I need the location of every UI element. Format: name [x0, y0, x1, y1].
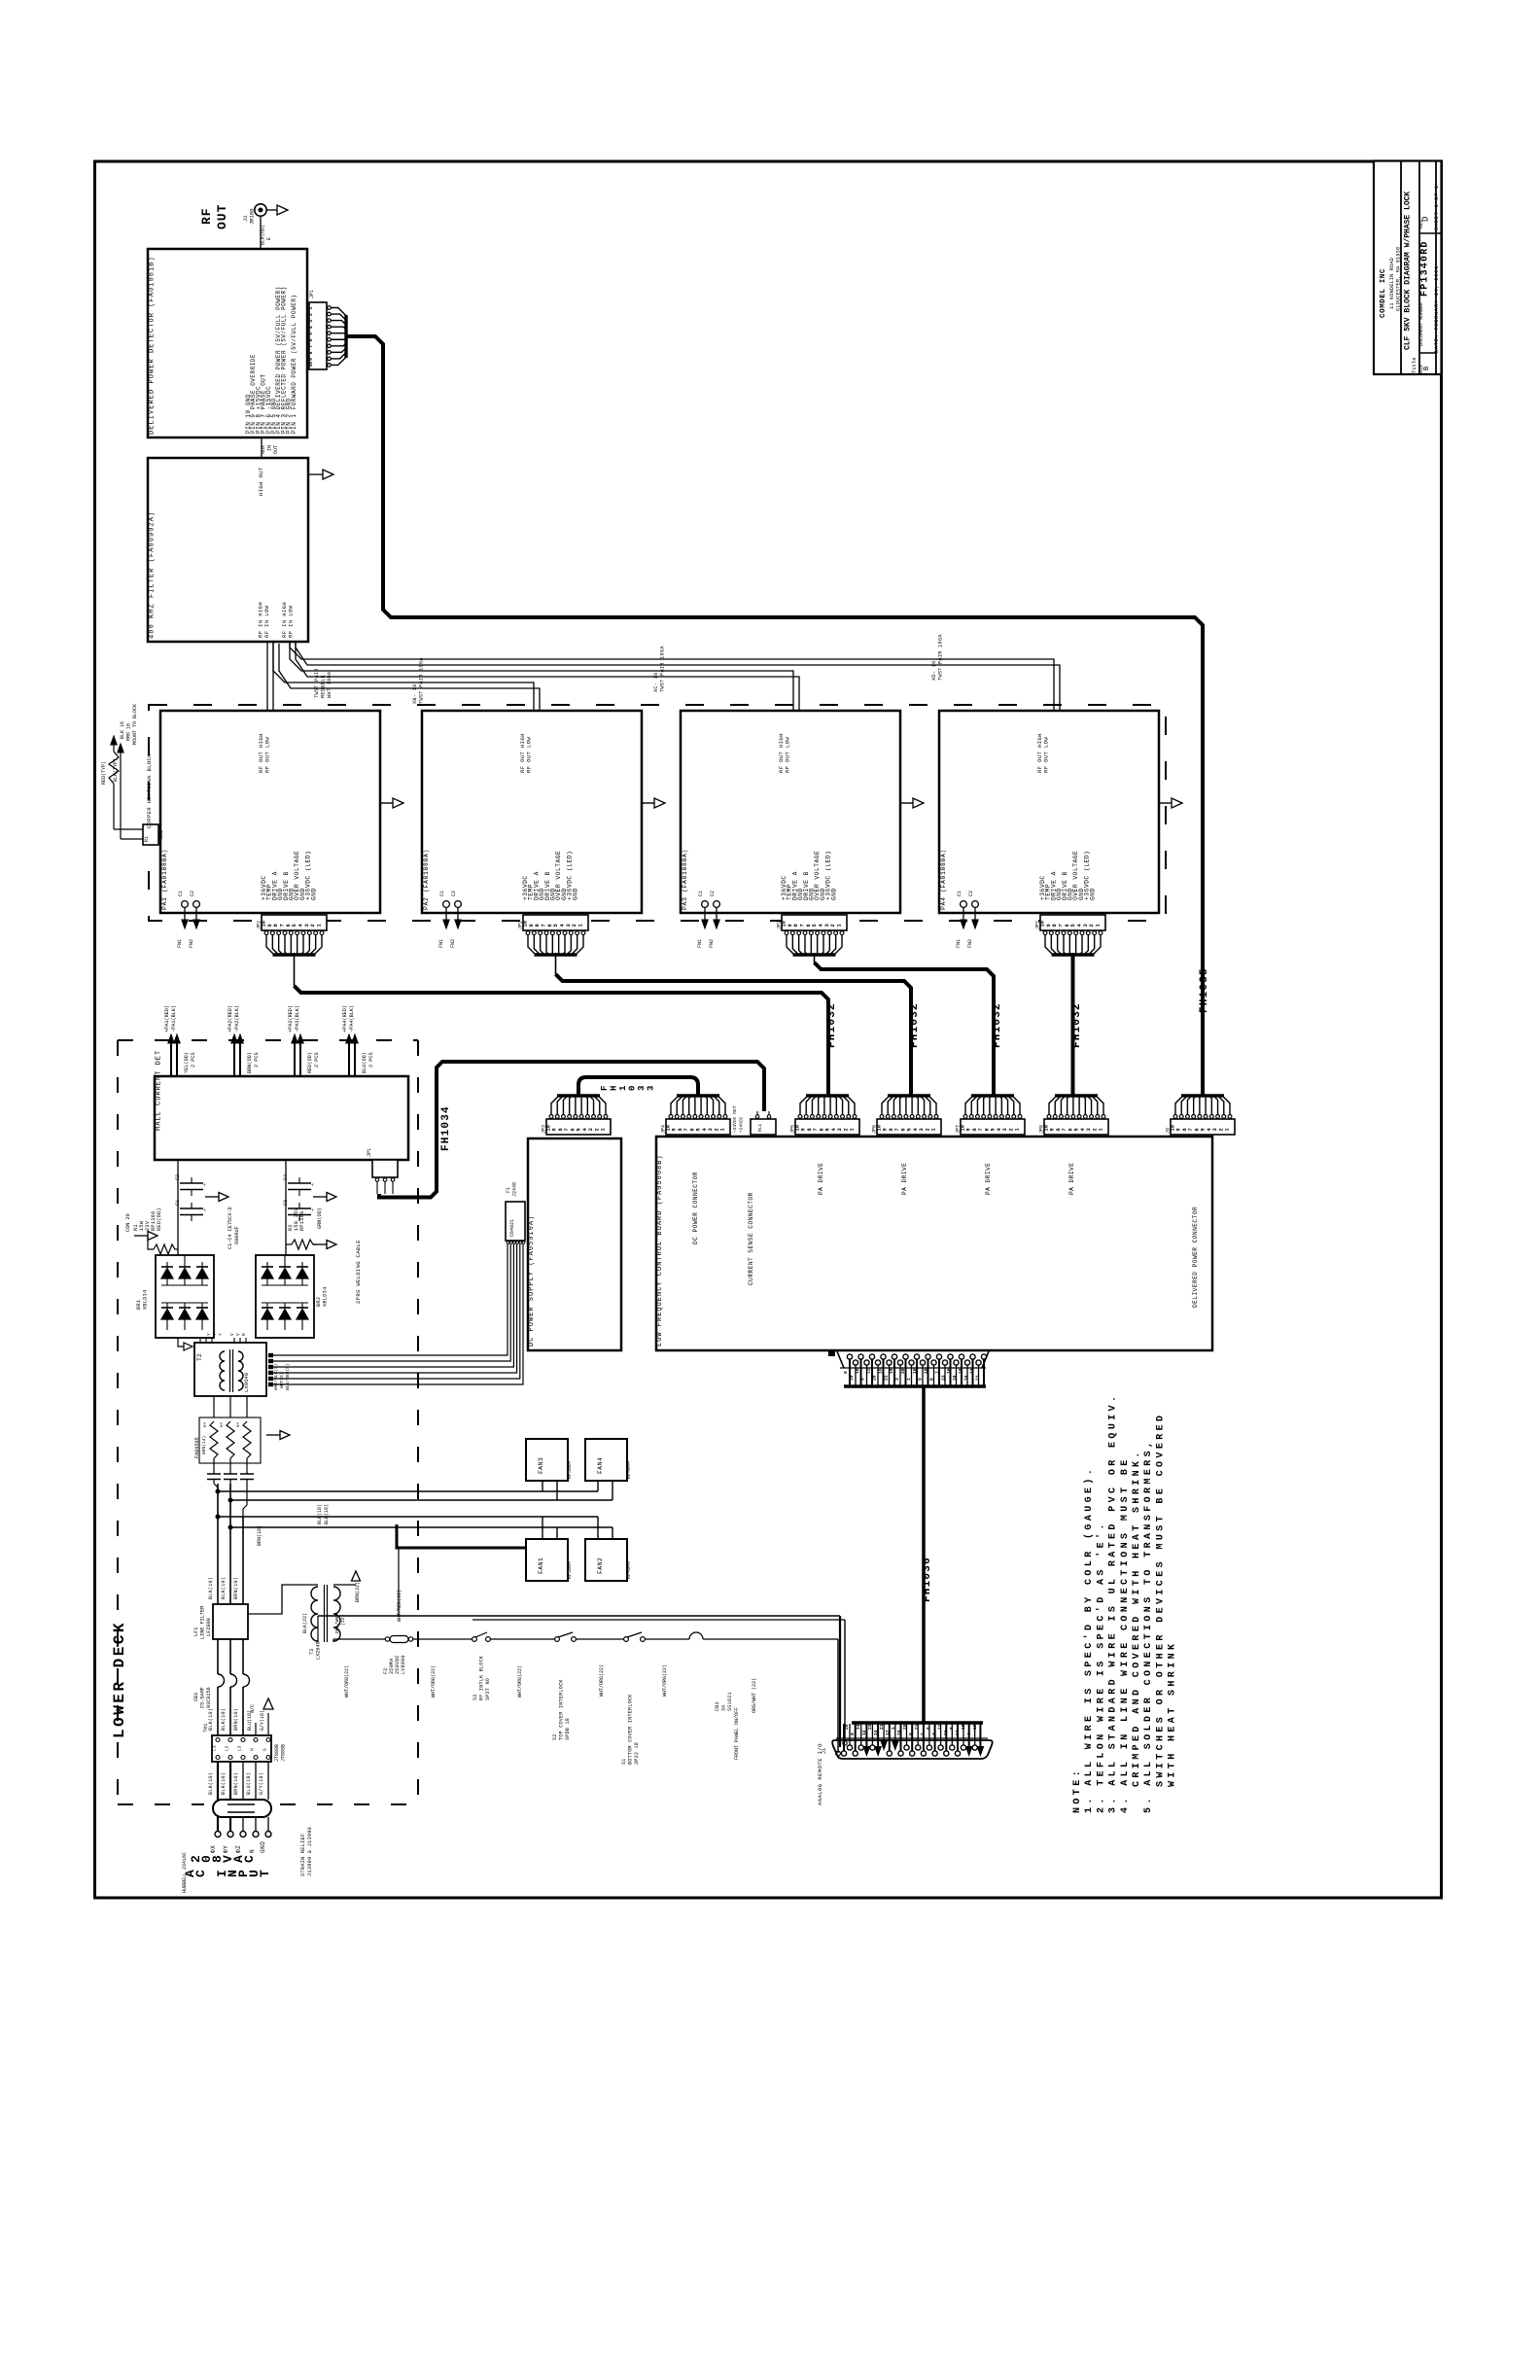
- svg-text:16: 16: [946, 1368, 952, 1374]
- svg-text:F: F: [600, 1086, 610, 1091]
- svg-text:8: 8: [972, 1128, 978, 1131]
- svg-text:1: 1: [578, 924, 584, 927]
- svg-text:5: 5: [553, 924, 559, 927]
- svg-text:G/Y(18): G/Y(18): [260, 1710, 265, 1731]
- svg-text:FH1036: FH1036: [922, 1557, 933, 1602]
- svg-text:WHT/ORG(22): WHT/ORG(22): [431, 1665, 437, 1697]
- svg-text:C: C: [242, 1855, 257, 1863]
- svg-text:2: 2: [1092, 1128, 1098, 1131]
- svg-text:6: 6: [819, 1128, 824, 1131]
- svg-text:9: 9: [918, 1378, 924, 1381]
- svg-text:1: 1: [906, 1378, 912, 1381]
- svg-text:3: 3: [1083, 924, 1089, 927]
- svg-text:JP2: JP2: [1035, 921, 1041, 929]
- svg-text:6: 6: [1065, 924, 1070, 927]
- svg-text:IN: IN: [267, 445, 273, 451]
- svg-text:Title: Title: [1411, 357, 1417, 373]
- svg-text:DATE: FEBRUARY 14, 2001: DATE: FEBRUARY 14, 2001: [1434, 265, 1440, 353]
- svg-text:24: 24: [856, 1724, 861, 1730]
- svg-text:5: 5: [812, 924, 818, 927]
- svg-text:BR2: BR2: [316, 1297, 322, 1307]
- svg-text:PA3 (FA01080A): PA3 (FA01080A): [682, 849, 688, 910]
- svg-text:RF: RF: [199, 207, 214, 225]
- svg-text:8: 8: [908, 1732, 914, 1735]
- svg-text:WHT/ORG(22): WHT/ORG(22): [599, 1664, 605, 1697]
- svg-text:+24VDC RET: +24VDC RET: [732, 1105, 738, 1133]
- svg-text:8: 8: [1182, 1128, 1188, 1131]
- svg-text:TWST PAIR 18GA: TWST PAIR 18GA: [419, 657, 425, 704]
- svg-text:FRONT PANEL ON/OFF: FRONT PANEL ON/OFF: [734, 1707, 740, 1760]
- svg-text:PA4 (FA01080A): PA4 (FA01080A): [940, 849, 947, 910]
- svg-text:1: 1: [837, 924, 843, 927]
- svg-text:LOWER DECK: LOWER DECK: [111, 1621, 128, 1738]
- svg-text:JP1: JP1: [367, 1148, 372, 1157]
- svg-text:NOTE:: NOTE:: [1072, 1767, 1083, 1813]
- svg-text:e+: e+: [220, 1421, 225, 1427]
- svg-text:LOW FREQUENCY CONTROL BOARD (F: LOW FREQUENCY CONTROL BOARD (FA05008B): [656, 1154, 664, 1347]
- svg-text:3: 3: [647, 1086, 656, 1091]
- svg-text:RMG 16: RMG 16: [126, 723, 132, 741]
- svg-text:9: 9: [883, 1128, 889, 1131]
- svg-text:BLU(18): BLU(18): [246, 1772, 252, 1795]
- svg-text:RF IN LOW: RF IN LOW: [288, 605, 295, 638]
- svg-text:WHT/ORG(22): WHT/ORG(22): [517, 1665, 523, 1697]
- svg-text:2 PCS: 2 PCS: [191, 1052, 196, 1067]
- svg-text:FAN2: FAN2: [597, 1557, 604, 1574]
- svg-text:3: 3: [304, 924, 310, 927]
- svg-text:FAN4: FAN4: [597, 1457, 604, 1474]
- svg-text:4. ALL IN LINE WIRE CONNECTION: 4. ALL IN LINE WIRE CONNECTIONS MUST BE: [1120, 1456, 1131, 1813]
- svg-text:6: 6: [900, 1128, 906, 1131]
- svg-text:-PA2(BLK): -PA2(BLK): [234, 1005, 240, 1032]
- svg-text:SPST NO: SPST NO: [485, 1678, 491, 1700]
- svg-text:SWITCHES OR OTHER DEVICES MUST: SWITCHES OR OTHER DEVICES MUST BE COVERE…: [1155, 1413, 1166, 1787]
- svg-text:COMDEL INC: COMDEL INC: [1380, 268, 1387, 318]
- svg-text:8: 8: [949, 1727, 955, 1730]
- svg-text:4: 4: [966, 1732, 972, 1735]
- svg-text:MOUNT TO BLOCK: MOUNT TO BLOCK: [132, 704, 138, 745]
- svg-text:7: 7: [308, 345, 314, 348]
- svg-text:9: 9: [1050, 1128, 1056, 1131]
- svg-text:5. ALL SOLDER CONECTIONS TO TR: 5. ALL SOLDER CONECTIONS TO TRANSFORMERS…: [1143, 1439, 1154, 1813]
- svg-text:GRN(OD): GRN(OD): [317, 1207, 323, 1229]
- svg-text:BLK(10): BLK(10): [221, 1772, 227, 1795]
- svg-text:RP5084: RP5084: [567, 1461, 573, 1479]
- svg-text:E: E: [266, 237, 272, 240]
- svg-text:6: 6: [689, 1128, 695, 1131]
- svg-text:1: 1: [1225, 1128, 1231, 1131]
- svg-text:V: V: [229, 1333, 235, 1336]
- svg-text:GRN(14): GRN(14): [201, 1436, 207, 1454]
- svg-text:5: 5: [577, 1128, 582, 1131]
- svg-text:19: 19: [849, 1375, 855, 1381]
- svg-text:18: 18: [952, 1375, 958, 1381]
- svg-text:3: 3: [824, 924, 830, 927]
- svg-text:C1: C1: [698, 891, 704, 896]
- svg-text:CLF 5KV BLOCK DIAGRAM W/PHASE: CLF 5KV BLOCK DIAGRAM W/PHASE LOCK: [1404, 192, 1413, 350]
- svg-text:RED&BLK: RED&BLK: [321, 675, 327, 698]
- svg-text:FN2: FN2: [709, 939, 715, 948]
- svg-text:S2: S2: [552, 1733, 558, 1740]
- svg-text:+PA2(RED): +PA2(RED): [227, 1005, 233, 1032]
- svg-text:12: 12: [937, 1724, 943, 1730]
- svg-text:6: 6: [926, 1727, 931, 1730]
- svg-text:2: 2: [714, 1128, 719, 1131]
- svg-text:6: 6: [806, 924, 812, 927]
- svg-text:C2: C2: [968, 891, 974, 896]
- svg-text:T2: T2: [196, 1353, 203, 1361]
- svg-text:16: 16: [877, 1368, 883, 1374]
- svg-text:DELIVERED POWER CONNECTOR: DELIVERED POWER CONNECTOR: [1192, 1207, 1199, 1308]
- svg-text:D: D: [1421, 217, 1431, 222]
- svg-text:JP1: JP1: [309, 290, 315, 298]
- svg-text:6: 6: [570, 1128, 576, 1131]
- svg-text:XBLD34: XBLD34: [143, 1290, 149, 1310]
- svg-text:8: 8: [807, 1128, 813, 1131]
- svg-text:FH1032: FH1032: [826, 1002, 838, 1048]
- svg-text:FN2: FN2: [450, 939, 456, 948]
- svg-text:+PA1(RED): +PA1(RED): [164, 1005, 170, 1032]
- svg-text:WHT(S): WHT(S): [279, 1372, 285, 1388]
- svg-text:BLK(18): BLK(18): [317, 1504, 323, 1524]
- svg-text:R: R: [241, 1333, 247, 1336]
- svg-text:WHT/ORG(22): WHT/ORG(22): [662, 1664, 668, 1697]
- svg-text:JP5: JP5: [790, 1125, 796, 1134]
- svg-text:21: 21: [914, 1724, 920, 1730]
- svg-text:3: 3: [1212, 1128, 1218, 1131]
- svg-text:10: 10: [308, 362, 314, 367]
- svg-text:1: 1: [1015, 1128, 1021, 1131]
- svg-text:DELIVERED POWER DETECTOR (FA01: DELIVERED POWER DETECTOR (FA01081B): [149, 256, 157, 435]
- svg-text:18: 18: [855, 1368, 860, 1374]
- svg-text:JP2: JP2: [257, 921, 262, 929]
- svg-text:8: 8: [273, 924, 279, 927]
- svg-text:TWST PAIR: TWST PAIR: [314, 668, 320, 698]
- svg-text:ORG/WHT (22): ORG/WHT (22): [752, 1678, 757, 1713]
- svg-text:8: 8: [793, 924, 799, 927]
- svg-text:5: 5: [860, 1378, 866, 1381]
- svg-text:RF IN LOW: RF IN LOW: [263, 605, 270, 638]
- svg-text:BLK(22): BLK(22): [302, 1613, 308, 1633]
- svg-text:2. TEFLON WIRE IS SPEC'D AS 'E: 2. TEFLON WIRE IS SPEC'D AS 'E'.: [1095, 1521, 1106, 1813]
- svg-text:C1: C1: [439, 891, 445, 896]
- svg-text:9: 9: [1176, 1128, 1182, 1131]
- svg-text:+: +: [310, 1183, 316, 1186]
- svg-text:SPDB 18: SPDB 18: [565, 1718, 571, 1740]
- svg-text:TM1: TM1: [203, 1724, 209, 1732]
- svg-text:8: 8: [308, 351, 314, 354]
- svg-text:RF OUT LOW: RF OUT LOW: [264, 737, 271, 773]
- svg-text:25: 25: [902, 1724, 908, 1730]
- svg-text:G: G: [262, 1748, 268, 1751]
- svg-text:AUX: AUX: [261, 445, 266, 454]
- svg-text:8: 8: [843, 1371, 849, 1374]
- svg-text:RL1: RL1: [757, 1124, 763, 1132]
- svg-text:2 PCS: 2 PCS: [368, 1052, 374, 1067]
- svg-text:CB1: CB1: [193, 1693, 199, 1701]
- svg-text:6: 6: [547, 924, 553, 927]
- svg-text:DC POWER CONNECTOR: DC POWER CONNECTOR: [692, 1172, 699, 1244]
- svg-text:3: 3: [894, 1378, 900, 1381]
- svg-text:1: 1: [891, 1727, 896, 1730]
- svg-text:6: 6: [286, 924, 292, 927]
- svg-text:WHT/BLK(S): WHT/BLK(S): [273, 1363, 279, 1390]
- svg-text:RF OUT LOW: RF OUT LOW: [785, 737, 791, 773]
- svg-text:2: 2: [830, 924, 836, 927]
- svg-text:9: 9: [672, 1128, 678, 1131]
- svg-text:C3: C3: [283, 1200, 289, 1206]
- svg-text:9: 9: [552, 1128, 558, 1131]
- svg-text:C1-C4 CE75CX-D: C1-C4 CE75CX-D: [227, 1207, 233, 1249]
- svg-text:C2: C2: [451, 891, 457, 896]
- svg-text:FAN3: FAN3: [538, 1457, 544, 1474]
- svg-text:COPPER HEATSINK BLOCK: COPPER HEATSINK BLOCK: [146, 753, 153, 828]
- svg-text:LINE FILTER: LINE FILTER: [200, 1606, 206, 1639]
- svg-text:2 PCS: 2 PCS: [314, 1052, 320, 1067]
- svg-text:RP4044: RP4044: [626, 1561, 632, 1579]
- svg-text:C2: C2: [710, 891, 716, 896]
- svg-text:9: 9: [966, 1128, 972, 1131]
- svg-text:2: 2: [1089, 924, 1095, 927]
- svg-text:BLK(18): BLK(18): [324, 1504, 330, 1524]
- svg-text:GND: GND: [1089, 888, 1096, 900]
- svg-text:JP2: JP2: [518, 921, 524, 929]
- svg-text:3: 3: [708, 1128, 714, 1131]
- svg-text:S3: S3: [472, 1694, 478, 1700]
- svg-text:+PA4(RED): +PA4(RED): [342, 1005, 348, 1032]
- svg-text:C2: C2: [190, 891, 195, 896]
- svg-text:5: 5: [308, 332, 314, 335]
- svg-text:1: 1: [850, 1128, 856, 1131]
- svg-text:BLK 16: BLK 16: [120, 721, 125, 739]
- svg-text:480 KHZ FILTER (FA00902A): 480 KHZ FILTER (FA00902A): [149, 511, 157, 639]
- svg-text:YEL(OD): YEL(OD): [184, 1052, 190, 1073]
- svg-text:PA1 (FA01080A): PA1 (FA01080A): [161, 849, 168, 910]
- svg-text:XD- 18: XD- 18: [931, 661, 937, 681]
- svg-text:TWST PAIR 18GA: TWST PAIR 18GA: [938, 634, 944, 681]
- svg-text:JP8: JP8: [1039, 1125, 1045, 1134]
- svg-text:FN1: FN1: [956, 939, 962, 948]
- svg-text:C: C: [193, 1870, 208, 1877]
- svg-text:3: 3: [837, 1128, 843, 1131]
- svg-text:S1: S1: [621, 1758, 627, 1765]
- svg-text:5: 5: [907, 1128, 913, 1131]
- svg-text:+24VDC: +24VDC: [739, 1116, 745, 1133]
- svg-text:13: 13: [955, 1730, 961, 1735]
- svg-text:JP2: JP2: [777, 921, 783, 929]
- svg-text:7: 7: [280, 924, 286, 927]
- svg-text:T: T: [258, 1870, 272, 1877]
- svg-text:6800UF: 6800UF: [234, 1226, 240, 1244]
- svg-text:16: 16: [963, 1375, 969, 1381]
- svg-text:RF OUT LOW: RF OUT LOW: [1043, 737, 1050, 773]
- svg-text:BR1: BR1: [136, 1300, 142, 1310]
- svg-text:21: 21: [883, 1375, 889, 1381]
- svg-text:BLK/RED(S): BLK/RED(S): [285, 1363, 291, 1390]
- svg-text:CON 20: CON 20: [125, 1213, 131, 1232]
- svg-text:FH1032: FH1032: [909, 1002, 921, 1048]
- svg-text:5: 5: [1070, 924, 1076, 927]
- svg-text:7: 7: [1059, 924, 1065, 927]
- svg-text:R1: R1: [144, 836, 150, 842]
- svg-text:GND: GND: [310, 888, 317, 900]
- svg-text:LF1: LF1: [193, 1627, 199, 1636]
- svg-text:2PRS WELDING CABLE: 2PRS WELDING CABLE: [355, 1240, 362, 1304]
- svg-text:Y: Y: [212, 1333, 218, 1336]
- svg-text:5: 5: [1201, 1128, 1207, 1131]
- svg-text:BLK(TYP): BLK(TYP): [113, 758, 119, 782]
- svg-text:HIGH OUT: HIGH OUT: [258, 467, 264, 496]
- svg-text:GND: GND: [572, 888, 578, 900]
- svg-text:7: 7: [978, 1128, 984, 1131]
- svg-text:12: 12: [866, 1368, 872, 1374]
- svg-text:FA08585: FA08585: [194, 1437, 200, 1458]
- svg-text:5: 5: [696, 1128, 702, 1131]
- svg-text:ΦZ: ΦZ: [235, 1845, 242, 1853]
- svg-text:7: 7: [800, 924, 806, 927]
- svg-text:11 KONDELIN ROAD: 11 KONDELIN ROAD: [1389, 258, 1395, 309]
- svg-text:LX2640: LX2640: [316, 1641, 322, 1660]
- svg-text:18: 18: [924, 1368, 929, 1374]
- svg-text:9: 9: [308, 358, 314, 361]
- svg-text:2: 2: [925, 1128, 930, 1131]
- svg-text:+: +: [202, 1183, 208, 1186]
- svg-text:PA DRIVE: PA DRIVE: [1068, 1163, 1075, 1195]
- svg-text:PA DRIVE: PA DRIVE: [818, 1163, 824, 1195]
- svg-text:20: 20: [844, 1724, 850, 1730]
- svg-text:21: 21: [879, 1724, 885, 1730]
- svg-text:7: 7: [894, 1128, 900, 1131]
- svg-text:FP1340RD: FP1340RD: [1420, 240, 1431, 297]
- svg-text:9: 9: [801, 1128, 807, 1131]
- svg-text:C1: C1: [178, 891, 184, 896]
- svg-text:BLK(10): BLK(10): [221, 1577, 227, 1599]
- svg-text:BLU(OD): BLU(OD): [362, 1052, 367, 1073]
- svg-text:LF2800: LF2800: [206, 1618, 212, 1636]
- svg-text:4: 4: [931, 1732, 937, 1735]
- svg-text:FH1032: FH1032: [992, 1002, 1003, 1048]
- svg-text:J1: J1: [822, 1748, 827, 1754]
- svg-text:3P22 18: 3P22 18: [634, 1742, 640, 1765]
- svg-text:JP4: JP4: [661, 1125, 667, 1134]
- svg-text:6: 6: [1194, 1128, 1200, 1131]
- svg-text:L3: L3: [237, 1745, 243, 1751]
- svg-text:19: 19: [972, 1724, 978, 1730]
- svg-text:19: 19: [889, 1368, 894, 1374]
- svg-text:N: N: [250, 1748, 256, 1751]
- svg-text:3: 3: [637, 1086, 647, 1091]
- svg-text:BRN(18): BRN(18): [257, 1525, 262, 1546]
- svg-text:RF INTLK BLOCK: RF INTLK BLOCK: [479, 1656, 485, 1700]
- svg-text:16: 16: [943, 1730, 949, 1735]
- svg-text:WHT/RED(22): WHT/RED(22): [397, 1590, 402, 1622]
- svg-text:TOP COVER INTERLOCK: TOP COVER INTERLOCK: [559, 1679, 565, 1740]
- svg-text:2 PCS: 2 PCS: [254, 1052, 260, 1067]
- svg-text:Y: Y: [206, 1333, 212, 1336]
- svg-text:6: 6: [984, 1128, 990, 1131]
- svg-text:RF OUT LOW: RF OUT LOW: [526, 737, 533, 773]
- svg-text:6: 6: [1067, 1128, 1073, 1131]
- svg-text:RED(OD): RED(OD): [307, 1052, 313, 1073]
- svg-text:8: 8: [1056, 1128, 1062, 1131]
- svg-text:ΦY: ΦY: [223, 1845, 229, 1853]
- svg-text:7: 7: [934, 1371, 940, 1374]
- svg-text:JP7: JP7: [956, 1125, 962, 1134]
- svg-text:18: 18: [958, 1368, 963, 1374]
- svg-text:BOTTOM COVER INTERLOCK: BOTTOM COVER INTERLOCK: [628, 1694, 634, 1765]
- svg-text:5: 5: [292, 924, 297, 927]
- svg-text:BRN(10): BRN(10): [233, 1708, 239, 1731]
- svg-text:FH1032: FH1032: [1071, 1002, 1083, 1048]
- svg-text:RED(TYP): RED(TYP): [101, 761, 107, 785]
- svg-text:1: 1: [618, 1085, 628, 1091]
- svg-text:+: +: [310, 1208, 316, 1211]
- svg-text:8: 8: [1052, 924, 1058, 927]
- svg-text:V: V: [235, 1333, 241, 1336]
- svg-text:J9: J9: [1166, 1128, 1172, 1134]
- svg-text:9: 9: [267, 924, 273, 927]
- svg-text:7: 7: [1188, 1128, 1194, 1131]
- svg-text:5: 5: [1074, 1128, 1080, 1131]
- svg-text:8: 8: [889, 1128, 894, 1131]
- svg-text:BRN(10): BRN(10): [233, 1772, 239, 1795]
- svg-text:DOCUMENT NUMBER: DOCUMENT NUMBER: [1418, 302, 1424, 346]
- svg-text:RP5004: RP5004: [567, 1561, 573, 1579]
- svg-text:BRN(22): BRN(22): [355, 1582, 361, 1602]
- svg-text:3: 3: [919, 1128, 925, 1131]
- svg-text:8: 8: [678, 1128, 683, 1131]
- svg-text:7: 7: [564, 1128, 570, 1131]
- svg-text:JT888B: JT888B: [281, 1744, 287, 1762]
- svg-text:1: 1: [720, 1128, 726, 1131]
- svg-text:FAN1: FAN1: [538, 1557, 544, 1574]
- svg-text:SHEET 1 OF 1: SHEET 1 OF 1: [1434, 185, 1440, 230]
- svg-text:C2: C2: [175, 1174, 181, 1180]
- svg-text:1: 1: [1099, 1128, 1104, 1131]
- svg-text:GND: GND: [830, 888, 837, 900]
- svg-text:N/C: N/C: [250, 1704, 256, 1713]
- svg-text:STRAIN RELIEF: STRAIN RELIEF: [300, 1834, 306, 1876]
- svg-text:23: 23: [867, 1724, 873, 1730]
- svg-text:1: 1: [1096, 924, 1102, 927]
- svg-text:PA DRIVE: PA DRIVE: [901, 1163, 908, 1195]
- svg-text:WHT/ORG(22): WHT/ORG(22): [344, 1665, 350, 1697]
- svg-text:B: B: [1423, 367, 1431, 370]
- svg-text:CURRENT SENSE CONNECTOR: CURRENT SENSE CONNECTOR: [748, 1192, 754, 1285]
- svg-text:5: 5: [991, 1128, 997, 1131]
- svg-text:16: 16: [912, 1368, 918, 1374]
- svg-text:2: 2: [1008, 1128, 1014, 1131]
- svg-text:9: 9: [529, 924, 535, 927]
- svg-text:1: 1: [317, 924, 323, 927]
- svg-text:+: +: [202, 1208, 208, 1211]
- svg-text:3. ALL STANDARD WIRE IS UL RAT: 3. ALL STANDARD WIRE IS UL RATED PVC OR …: [1108, 1393, 1119, 1813]
- svg-text:9: 9: [1046, 924, 1052, 927]
- svg-text:15: 15: [896, 1730, 902, 1735]
- svg-text:93C8256: 93C8256: [206, 1687, 212, 1708]
- svg-text:OUT: OUT: [215, 204, 229, 229]
- svg-text:1: 1: [601, 1128, 607, 1131]
- svg-text:18: 18: [961, 1724, 966, 1730]
- svg-text:BLK(OD): BLK(OD): [261, 225, 266, 245]
- svg-text:SS1821: SS1821: [727, 1692, 733, 1711]
- svg-text:JP6: JP6: [872, 1125, 878, 1134]
- svg-text:BLK(10): BLK(10): [208, 1577, 214, 1599]
- svg-text:RP4044: RP4044: [626, 1461, 632, 1479]
- svg-text:GND: GND: [260, 1841, 266, 1853]
- svg-text:1: 1: [308, 307, 314, 310]
- svg-text:3: 3: [566, 924, 572, 927]
